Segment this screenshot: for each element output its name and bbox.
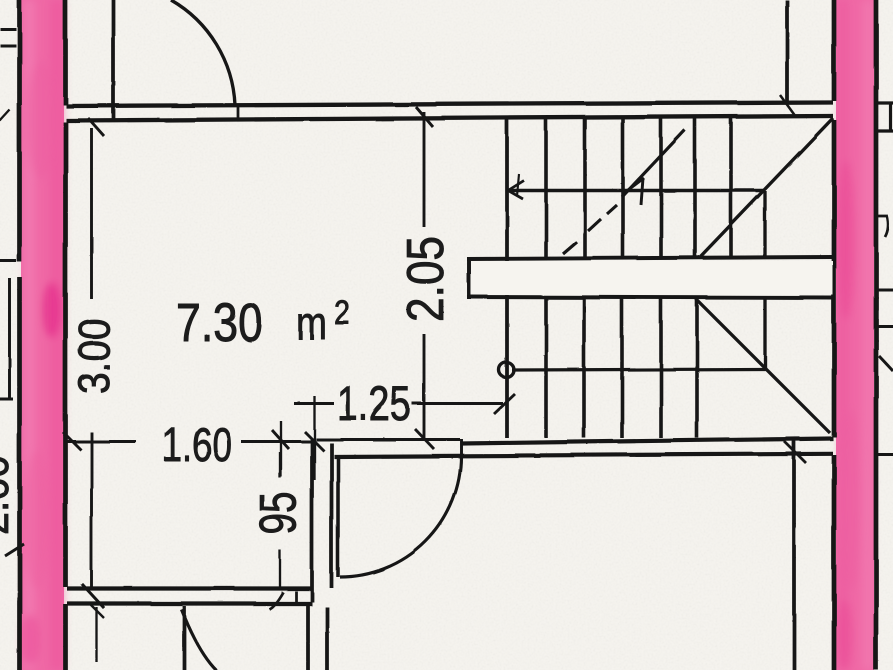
svg-text:95: 95 <box>250 492 308 535</box>
svg-text:7.30: 7.30 <box>176 293 263 353</box>
svg-text:2.60: 2.60 <box>0 455 18 535</box>
svg-text:2: 2 <box>334 294 350 332</box>
svg-text:2.05: 2.05 <box>397 236 455 322</box>
svg-text:1.60: 1.60 <box>162 419 232 472</box>
svg-text:m: m <box>296 297 327 349</box>
svg-text:1.25: 1.25 <box>337 378 411 431</box>
svg-text:3.00: 3.00 <box>70 318 119 394</box>
